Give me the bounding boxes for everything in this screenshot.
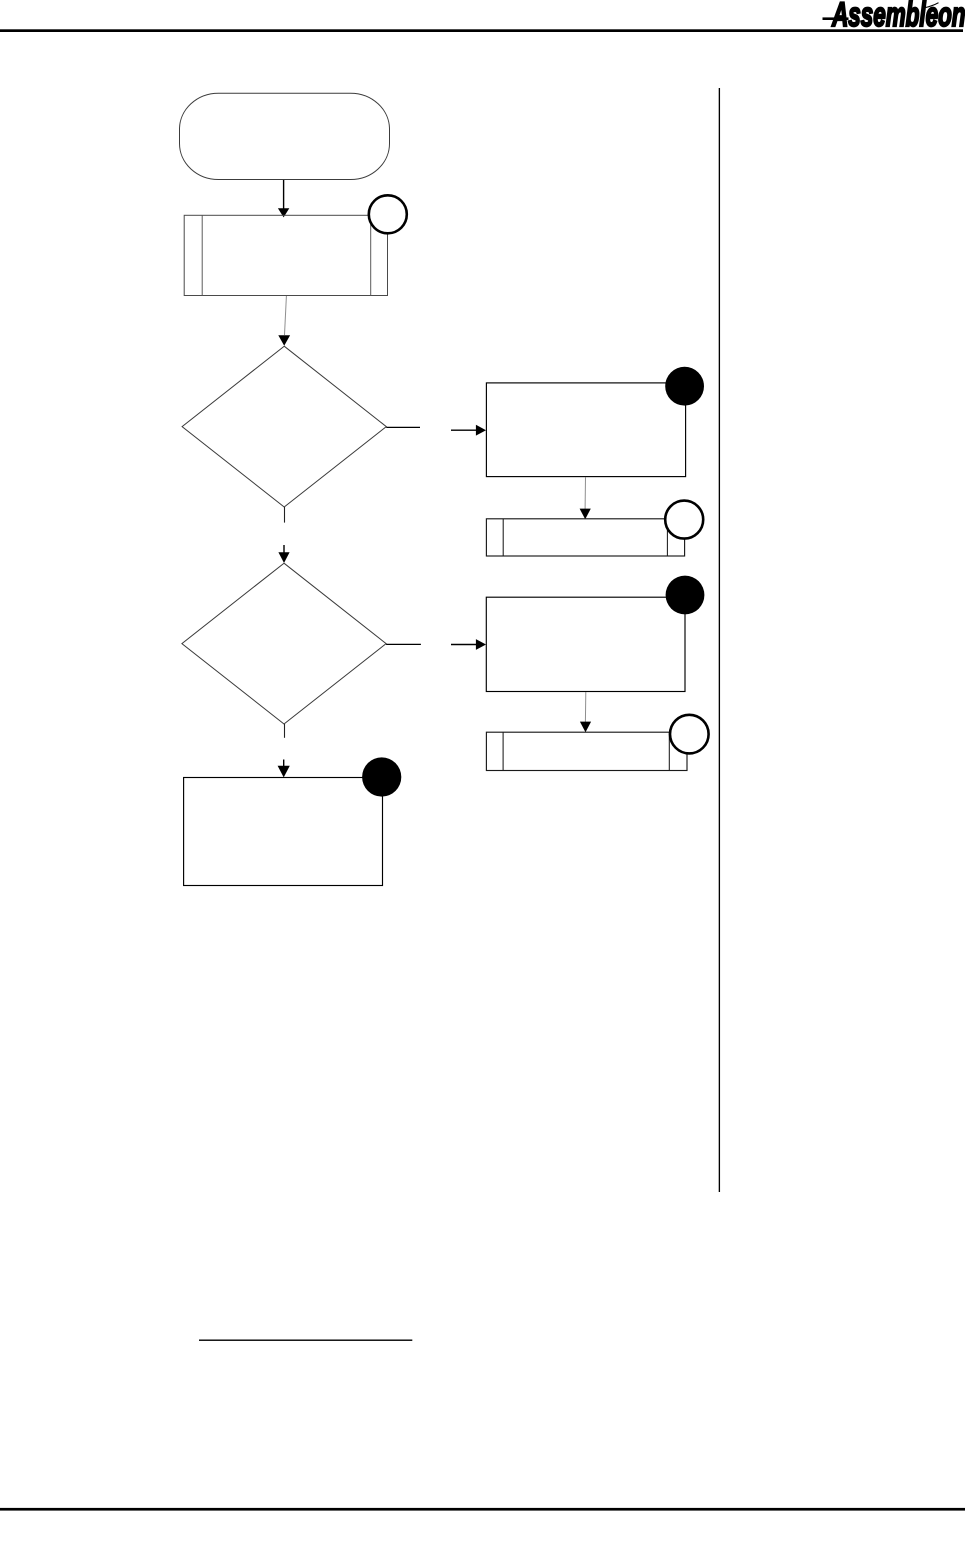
- svg-text:Assembleon: Assembleon: [831, 0, 965, 34]
